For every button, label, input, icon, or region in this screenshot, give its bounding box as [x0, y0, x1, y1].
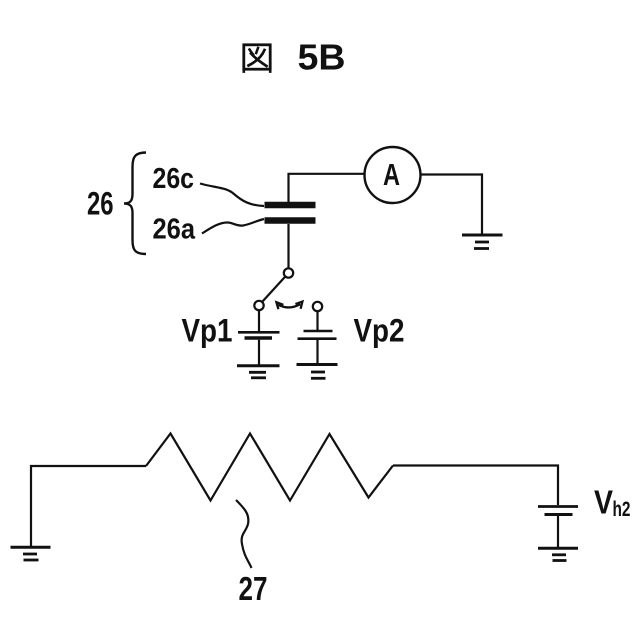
brace 26 — [124, 153, 146, 255]
capacitor plate 26c (upper) — [265, 202, 316, 209]
switch blade — [263, 277, 286, 302]
svg-text:27: 27 — [239, 570, 268, 607]
ground (below Vh2) — [538, 548, 578, 560]
switch contact (Vp2 side) — [313, 302, 322, 311]
wire left ground up and to resistor — [31, 466, 146, 546]
capacitor plate 26a (lower) — [265, 217, 316, 224]
leader from resistor to label 27 — [236, 500, 252, 568]
wire capacitor bottom to switch — [287, 224, 289, 268]
svg-text:26a: 26a — [153, 214, 197, 246]
battery Vp1 — [238, 332, 280, 338]
svg-text:Vp1: Vp1 — [182, 313, 233, 349]
svg-text:26: 26 — [87, 186, 114, 222]
svg-text:h2: h2 — [613, 498, 631, 521]
wire ammeter to right ground — [421, 175, 483, 235]
leader from 26a to lower plate — [202, 219, 264, 234]
battery Vh2 — [538, 507, 578, 515]
switch common node — [284, 268, 293, 277]
switch throw arrow — [276, 302, 302, 310]
leader from 26c to upper plate — [200, 184, 264, 207]
wire battery Vh2 to ground — [557, 516, 559, 547]
wire switch contact to battery Vp2 — [316, 311, 318, 330]
wire battery Vp1 to ground — [258, 340, 260, 365]
wire battery Vp2 to ground — [316, 340, 318, 364]
svg-text:26c: 26c — [153, 163, 195, 195]
svg-text:5B: 5B — [298, 36, 346, 77]
wire resistor to battery Vh2 — [393, 466, 558, 506]
ground (right of ammeter) — [462, 235, 503, 249]
switch contact (Vp1 side) — [254, 301, 263, 310]
wire switch contact to battery Vp1 — [258, 310, 260, 331]
ground (below Vp1) — [237, 366, 280, 378]
svg-text:V: V — [594, 484, 614, 521]
svg-text:Vp2: Vp2 — [354, 313, 405, 349]
ammeter U1 — [365, 147, 421, 203]
resistor 27 — [146, 434, 393, 501]
ground (below Vp2) — [297, 365, 338, 379]
ground (bottom left) — [11, 547, 51, 560]
battery Vp2 — [298, 331, 337, 339]
wire capacitor top to ammeter — [289, 174, 365, 202]
svg-text:A: A — [383, 158, 400, 192]
figure title "図 5B" — [244, 45, 270, 72]
